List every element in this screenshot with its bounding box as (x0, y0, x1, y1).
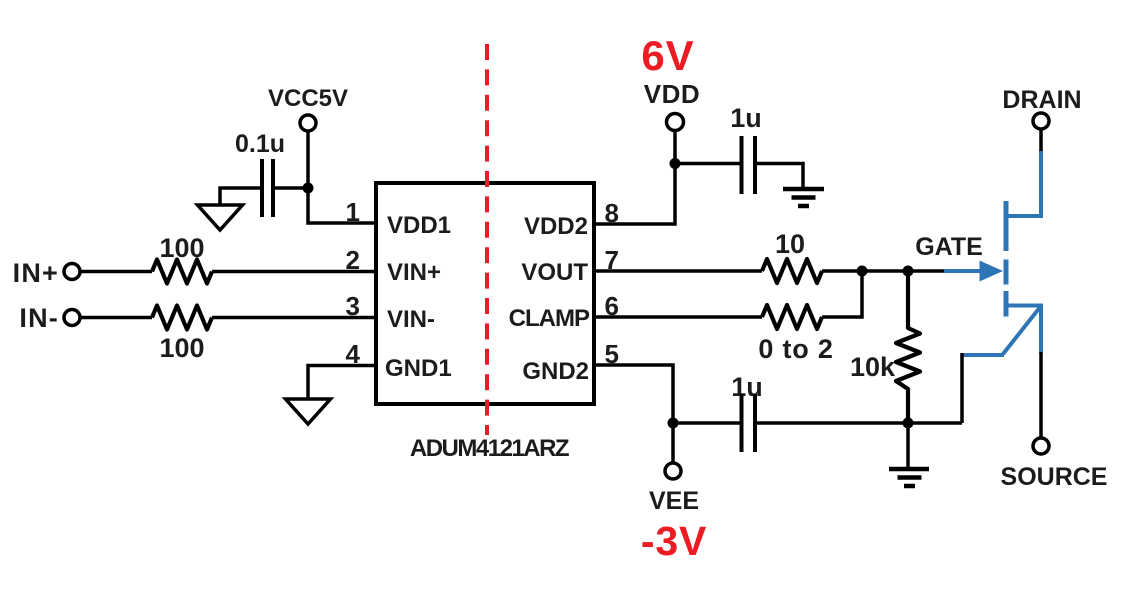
wire pin 4 to ground (308, 366, 376, 400)
wire rail to ground bars (906, 423, 910, 468)
svg-text:100: 100 (159, 333, 204, 363)
terminal VCC5V (300, 115, 316, 131)
svg-text:6V: 6V (641, 32, 694, 79)
capacitor C3 1u plates (742, 394, 756, 452)
svg-text:DRAIN: DRAIN (1002, 86, 1081, 114)
wire resistor to pin 3 (212, 316, 376, 320)
svg-text:10k: 10k (850, 352, 896, 382)
terminal VEE (665, 463, 681, 479)
wire kelvin source blue (962, 353, 1004, 357)
svg-text:VDD1: VDD1 (387, 212, 451, 239)
wire gate blue segment (944, 269, 981, 273)
svg-text:GATE: GATE (915, 233, 983, 261)
svg-text:100: 100 (159, 233, 204, 263)
wire IN- to resistor (80, 316, 152, 320)
svg-text:IN+: IN+ (13, 258, 59, 288)
junction 10k/rail (903, 418, 914, 429)
transistor Q1 channel bar middle (1004, 260, 1009, 285)
resistor 100 (IN+) (152, 260, 212, 284)
svg-text:ADUM4121ARZ: ADUM4121ARZ (410, 435, 569, 462)
svg-text:GND2: GND2 (522, 358, 589, 385)
wire kelvin source black down to rail (960, 353, 964, 423)
wire rail cap to source kelvin (757, 421, 962, 425)
resistor 0 to 2 (clamp) (762, 305, 822, 329)
terminal IN+ (64, 264, 80, 280)
svg-text:0.1u: 0.1u (235, 130, 285, 158)
wire pin 7 VOUT to resistor (594, 269, 762, 273)
svg-text:GND1: GND1 (385, 355, 452, 382)
svg-text:CLAMP: CLAMP (509, 305, 590, 332)
wire VDD down to pin 8 (594, 130, 675, 224)
svg-text:SOURCE: SOURCE (1001, 463, 1108, 491)
wire clamp resistor up to gate node (822, 271, 862, 317)
svg-text:VDD: VDD (644, 79, 700, 109)
wire drain black (1039, 129, 1043, 151)
ground (bars, below 10k) (889, 469, 929, 486)
wire VCC5V down to pin1 (308, 131, 376, 223)
svg-text:1u: 1u (730, 103, 762, 133)
junction VEE/rail (668, 418, 679, 429)
ground (triangle, GND1) (286, 399, 331, 424)
wire resistor to pin 2 (212, 270, 376, 274)
svg-text:VCC5V: VCC5V (268, 85, 348, 112)
gate arrowhead (980, 261, 1004, 282)
terminal DRAIN (1033, 113, 1049, 129)
resistor 100 (IN-) (152, 306, 212, 330)
svg-text:10: 10 (775, 229, 805, 259)
transistor Q1 channel bar bottom (1004, 291, 1009, 317)
ground (triangle, VCC decoupling) (198, 205, 243, 230)
svg-text:VIN-: VIN- (387, 306, 435, 333)
junction gate/clamp (857, 266, 868, 277)
capacitor C2 1u plates (742, 136, 756, 194)
resistor 10k (gate pulldown) (896, 271, 920, 423)
wire pin 6 CLAMP to resistor (594, 315, 762, 319)
wire cap right plate to junction (275, 186, 308, 190)
svg-text:VDD2: VDD2 (524, 213, 588, 240)
svg-text:VOUT: VOUT (521, 259, 588, 286)
terminal VDD (667, 114, 684, 131)
svg-text:VEE: VEE (649, 487, 699, 515)
wire junction to cap (675, 162, 740, 166)
junction VDD/1u (670, 158, 681, 169)
svg-text:VIN+: VIN+ (387, 259, 441, 286)
capacitor C1 0.1u plates (262, 159, 273, 217)
terminal IN- (64, 310, 80, 326)
transistor Q1 channel bar top (1004, 201, 1009, 251)
transistor Q1 drain connection (1007, 150, 1041, 216)
svg-text:IN-: IN- (19, 303, 59, 333)
wire IN+ to resistor (80, 270, 152, 274)
wire resistor to gate (822, 269, 946, 273)
ground (bars, VDD decoupling) (783, 189, 824, 206)
isolation barrier dashed line (485, 44, 489, 435)
terminal SOURCE (1033, 438, 1049, 454)
junction gate/10k (903, 266, 914, 277)
wire rail VEE to cap (673, 421, 740, 425)
svg-text:1u: 1u (731, 372, 763, 402)
svg-text:-3V: -3V (641, 518, 707, 564)
svg-text:0 to 2: 0 to 2 (758, 334, 833, 364)
wire pin 5 GND2 down (594, 365, 673, 463)
wire source black (1039, 352, 1043, 438)
transistor Q1 source connection (1007, 306, 1041, 354)
IC U1 ADUM4121ARZ body (376, 183, 594, 404)
resistor 10 (gate) (762, 259, 822, 283)
wire cap left plate to ground (220, 188, 260, 205)
wire cap to ground (757, 164, 803, 189)
junction VCC/0.1u (303, 183, 314, 194)
transistor Q1 body diagonal (1003, 306, 1041, 354)
